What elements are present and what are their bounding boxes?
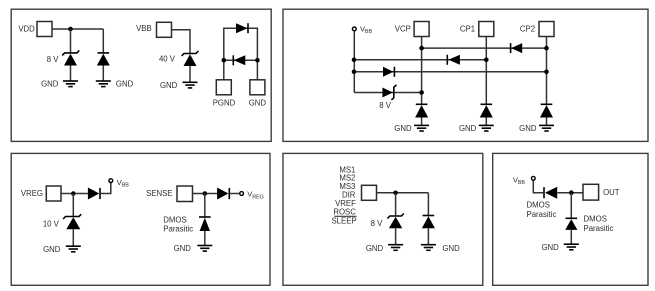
svg-text:DMOS: DMOS	[163, 215, 186, 224]
node junction dot (VBB / row2)	[352, 58, 357, 63]
net label VBB	[117, 178, 129, 189]
wire OUT node down to DMOS parasitic diode	[570, 193, 572, 219]
pin OUT terminal box	[583, 184, 599, 200]
wire middle cross connection	[224, 59, 258, 61]
svg-text:VDD: VDD	[18, 24, 35, 33]
ground symbol (VBB zener)	[183, 82, 198, 88]
label DMOS Parasitic	[163, 215, 193, 233]
svg-text:CP1: CP1	[460, 25, 475, 34]
wire CP2 clamp to ground	[546, 118, 548, 126]
svg-text:GND: GND	[116, 80, 134, 89]
wire input pin to clamp branches	[377, 192, 429, 194]
svg-text:BB: BB	[122, 182, 130, 188]
wire SENSE node down to DMOS parasitic diode	[204, 194, 206, 218]
zener diode 8 V (VDD clamp), cathode up	[62, 50, 79, 65]
pin CP1 terminal box	[479, 22, 494, 37]
node junction dot (GND side)	[255, 58, 260, 63]
svg-text:DMOS: DMOS	[584, 215, 607, 224]
wire zener anode to ground	[70, 66, 72, 82]
pin SENSE terminal box	[177, 186, 193, 202]
node junction dot (VDD net)	[68, 27, 73, 32]
diode DMOS parasitic (SENSE), cathode up	[199, 217, 211, 231]
svg-text:GND: GND	[459, 124, 477, 133]
panel border: box 5 (OUT pin protection)	[493, 153, 648, 285]
panel border: box 3 (VREG / SENSE protection)	[11, 153, 270, 285]
svg-text:SLEEP: SLEEP	[331, 217, 356, 226]
diode GND to PGND (middle), cathode left	[233, 55, 245, 65]
panel border: box 1 (VDD / VBB / PGND-GND protection)	[11, 9, 271, 141]
net label VBB	[513, 175, 525, 186]
wire VDD net down to clamp diode	[102, 29, 104, 53]
wire node to clamp diode branch	[427, 193, 429, 216]
ground symbol (VCP)	[414, 125, 429, 131]
svg-text:GND: GND	[160, 81, 178, 90]
svg-text:GND: GND	[541, 243, 559, 252]
svg-text:10 V: 10 V	[43, 220, 60, 229]
pin VCP terminal box	[414, 22, 429, 37]
diode input clamp to GND, cathode up	[422, 216, 435, 229]
ground symbol (input clamp diode)	[421, 245, 436, 251]
wire VBB terminal down to DMOS diode	[533, 181, 543, 193]
node junction dot (SENSE net)	[203, 191, 208, 196]
node junction dot (CP2 / row3)	[544, 70, 549, 75]
svg-text:BB: BB	[518, 180, 526, 186]
node junction dot (VREG net)	[71, 191, 76, 196]
diode SENSE to VREG, cathode right	[217, 188, 229, 200]
svg-text:OUT: OUT	[603, 188, 620, 197]
svg-text:8 V: 8 V	[371, 219, 384, 228]
wire diode to OUT pin	[557, 192, 583, 194]
svg-text:GND: GND	[366, 244, 384, 253]
net label VBB	[360, 25, 372, 36]
svg-text:8 V: 8 V	[47, 55, 60, 64]
svg-text:BB: BB	[365, 29, 373, 35]
node junction dot (VBB / row3)	[352, 70, 357, 75]
svg-text:GND: GND	[43, 245, 61, 254]
svg-text:40 V: 40 V	[159, 55, 176, 64]
wire CP2 vertical rail	[546, 37, 548, 105]
diode VCP clamp to GND, cathode up	[415, 104, 428, 117]
svg-text:DMOS: DMOS	[527, 200, 550, 209]
terminal circle VBB	[109, 179, 113, 183]
ground symbol (VREG)	[66, 246, 81, 252]
pin PGND terminal box	[216, 80, 231, 95]
zener diode 40 V (VBB clamp), cathode up	[182, 51, 199, 66]
wire row VBB to CP2	[354, 71, 547, 73]
svg-text:Parasitic: Parasitic	[163, 225, 193, 234]
wire zener anode to ground	[395, 228, 397, 244]
svg-text:GND: GND	[394, 124, 412, 133]
node junction dot (input net)	[393, 191, 398, 196]
diode CP1 to VBB, cathode left	[447, 55, 460, 65]
svg-text:GND: GND	[174, 244, 192, 253]
wire row VBB to CP1	[354, 59, 486, 61]
label DMOS Parasitic (lower)	[584, 215, 614, 234]
node junction dot (PGND side)	[222, 58, 227, 63]
wire CP1 vertical rail	[485, 37, 487, 105]
node junction dot (VCP / row4)	[419, 90, 424, 95]
wire VBB vertical rail	[353, 31, 355, 93]
net label VREG	[247, 190, 264, 201]
terminal circle VBB	[352, 27, 356, 31]
ground symbol (input zener)	[388, 245, 403, 251]
diode CP1 clamp to GND, cathode up	[480, 104, 493, 117]
svg-text:CP2: CP2	[520, 25, 535, 34]
node junction dot (CP1 / row2)	[484, 58, 489, 63]
svg-text:PGND: PGND	[213, 99, 236, 108]
zener diode 8 V (input clamp), cathode up	[387, 214, 403, 229]
wire SENSE pin to diode	[193, 193, 218, 195]
wire VREG node down to 10 V zener	[72, 194, 74, 217]
wire diode anode to ground	[570, 230, 572, 244]
pin VDD terminal box	[37, 22, 52, 37]
wire VBB pin to 40 V zener	[172, 30, 191, 54]
diode VDD clamp to GND, cathode up	[97, 53, 110, 66]
ground symbol (OUT)	[564, 244, 579, 250]
wire clamp diode anode to ground	[427, 228, 429, 244]
wire node down to 8 V zener	[70, 29, 72, 53]
wire VCP clamp to ground	[421, 118, 423, 126]
ground symbol (VDD clamp diode)	[96, 81, 111, 87]
diode PGND to GND (top), cathode right	[236, 23, 248, 33]
terminal circle VREG	[240, 192, 244, 196]
wire diode anode to ground	[204, 231, 206, 246]
svg-text:GND: GND	[519, 124, 537, 133]
wire VREG pin to diode	[61, 193, 88, 195]
pin GND terminal box	[250, 80, 265, 95]
pin CP2 terminal box	[539, 22, 554, 37]
pin VREG terminal box	[46, 186, 61, 201]
wire CP1 clamp to ground	[485, 118, 487, 126]
svg-text:REG: REG	[252, 194, 264, 200]
ground symbol (SENSE)	[197, 246, 212, 252]
pin VBB terminal box	[157, 22, 172, 37]
wire zener anode to ground	[72, 229, 74, 246]
zener diode 10 V (VREG clamp), cathode up	[63, 214, 81, 229]
overline of SLEEP (active low)	[334, 215, 356, 217]
svg-text:ROSC: ROSC	[333, 207, 356, 216]
panel border: box 2 (charge pump VBB/VCP/CP1/CP2 protection)	[283, 9, 648, 141]
wire 40 V zener anode to ground	[189, 66, 191, 82]
svg-text:VCP: VCP	[395, 25, 411, 34]
wire row VBB zener to VCP	[354, 92, 422, 94]
wire PGND-GND loop (left vertical, top, right vertical)	[224, 28, 258, 80]
wire VCP vertical rail	[421, 37, 423, 105]
svg-text:VBB: VBB	[136, 24, 152, 33]
wire clamp diode anode to ground	[102, 66, 104, 82]
diode CP2 to VCP, cathode left	[511, 43, 523, 53]
pin logic-input terminal box	[362, 185, 377, 200]
wire VDD pin to clamp branches	[52, 28, 103, 30]
ground symbol (CP2)	[539, 125, 554, 131]
panel border: box 4 (logic inputs protection)	[283, 153, 483, 285]
ground symbol (CP1)	[479, 125, 494, 131]
diode DMOS parasitic (OUT to GND), cathode up	[565, 218, 577, 230]
label DMOS Parasitic (upper)	[527, 200, 557, 219]
svg-text:VREG: VREG	[21, 189, 43, 198]
node junction dot (CP2 / row1)	[544, 46, 549, 51]
diode DMOS parasitic (OUT to VBB), cathode left	[544, 187, 557, 199]
svg-text:GND: GND	[442, 244, 460, 253]
node junction dot (VCP / row1)	[419, 46, 424, 51]
diode VBB to CP2, cathode right	[383, 67, 394, 77]
ground symbol (VDD zener)	[63, 81, 78, 87]
svg-text:GND: GND	[41, 80, 59, 89]
wire row VCP to CP2	[422, 47, 547, 49]
node junction dot (OUT net)	[569, 190, 574, 195]
diode VREG to VBB, cathode right	[88, 188, 100, 200]
svg-text:GND: GND	[249, 99, 267, 108]
wire diode to VREG terminal	[230, 193, 239, 195]
diode CP2 clamp to GND, cathode up	[540, 104, 553, 117]
svg-text:8 V: 8 V	[379, 101, 392, 110]
svg-text:Parasitic: Parasitic	[527, 210, 557, 219]
wire diode to VBB terminal	[101, 183, 111, 194]
wire node down to 8 V zener	[395, 193, 397, 216]
svg-text:SENSE: SENSE	[146, 189, 172, 198]
svg-text:Parasitic: Parasitic	[584, 224, 614, 233]
terminal circle VBB	[531, 176, 535, 180]
zener diode 8 V (VBB to VCP), cathode right	[382, 85, 396, 100]
